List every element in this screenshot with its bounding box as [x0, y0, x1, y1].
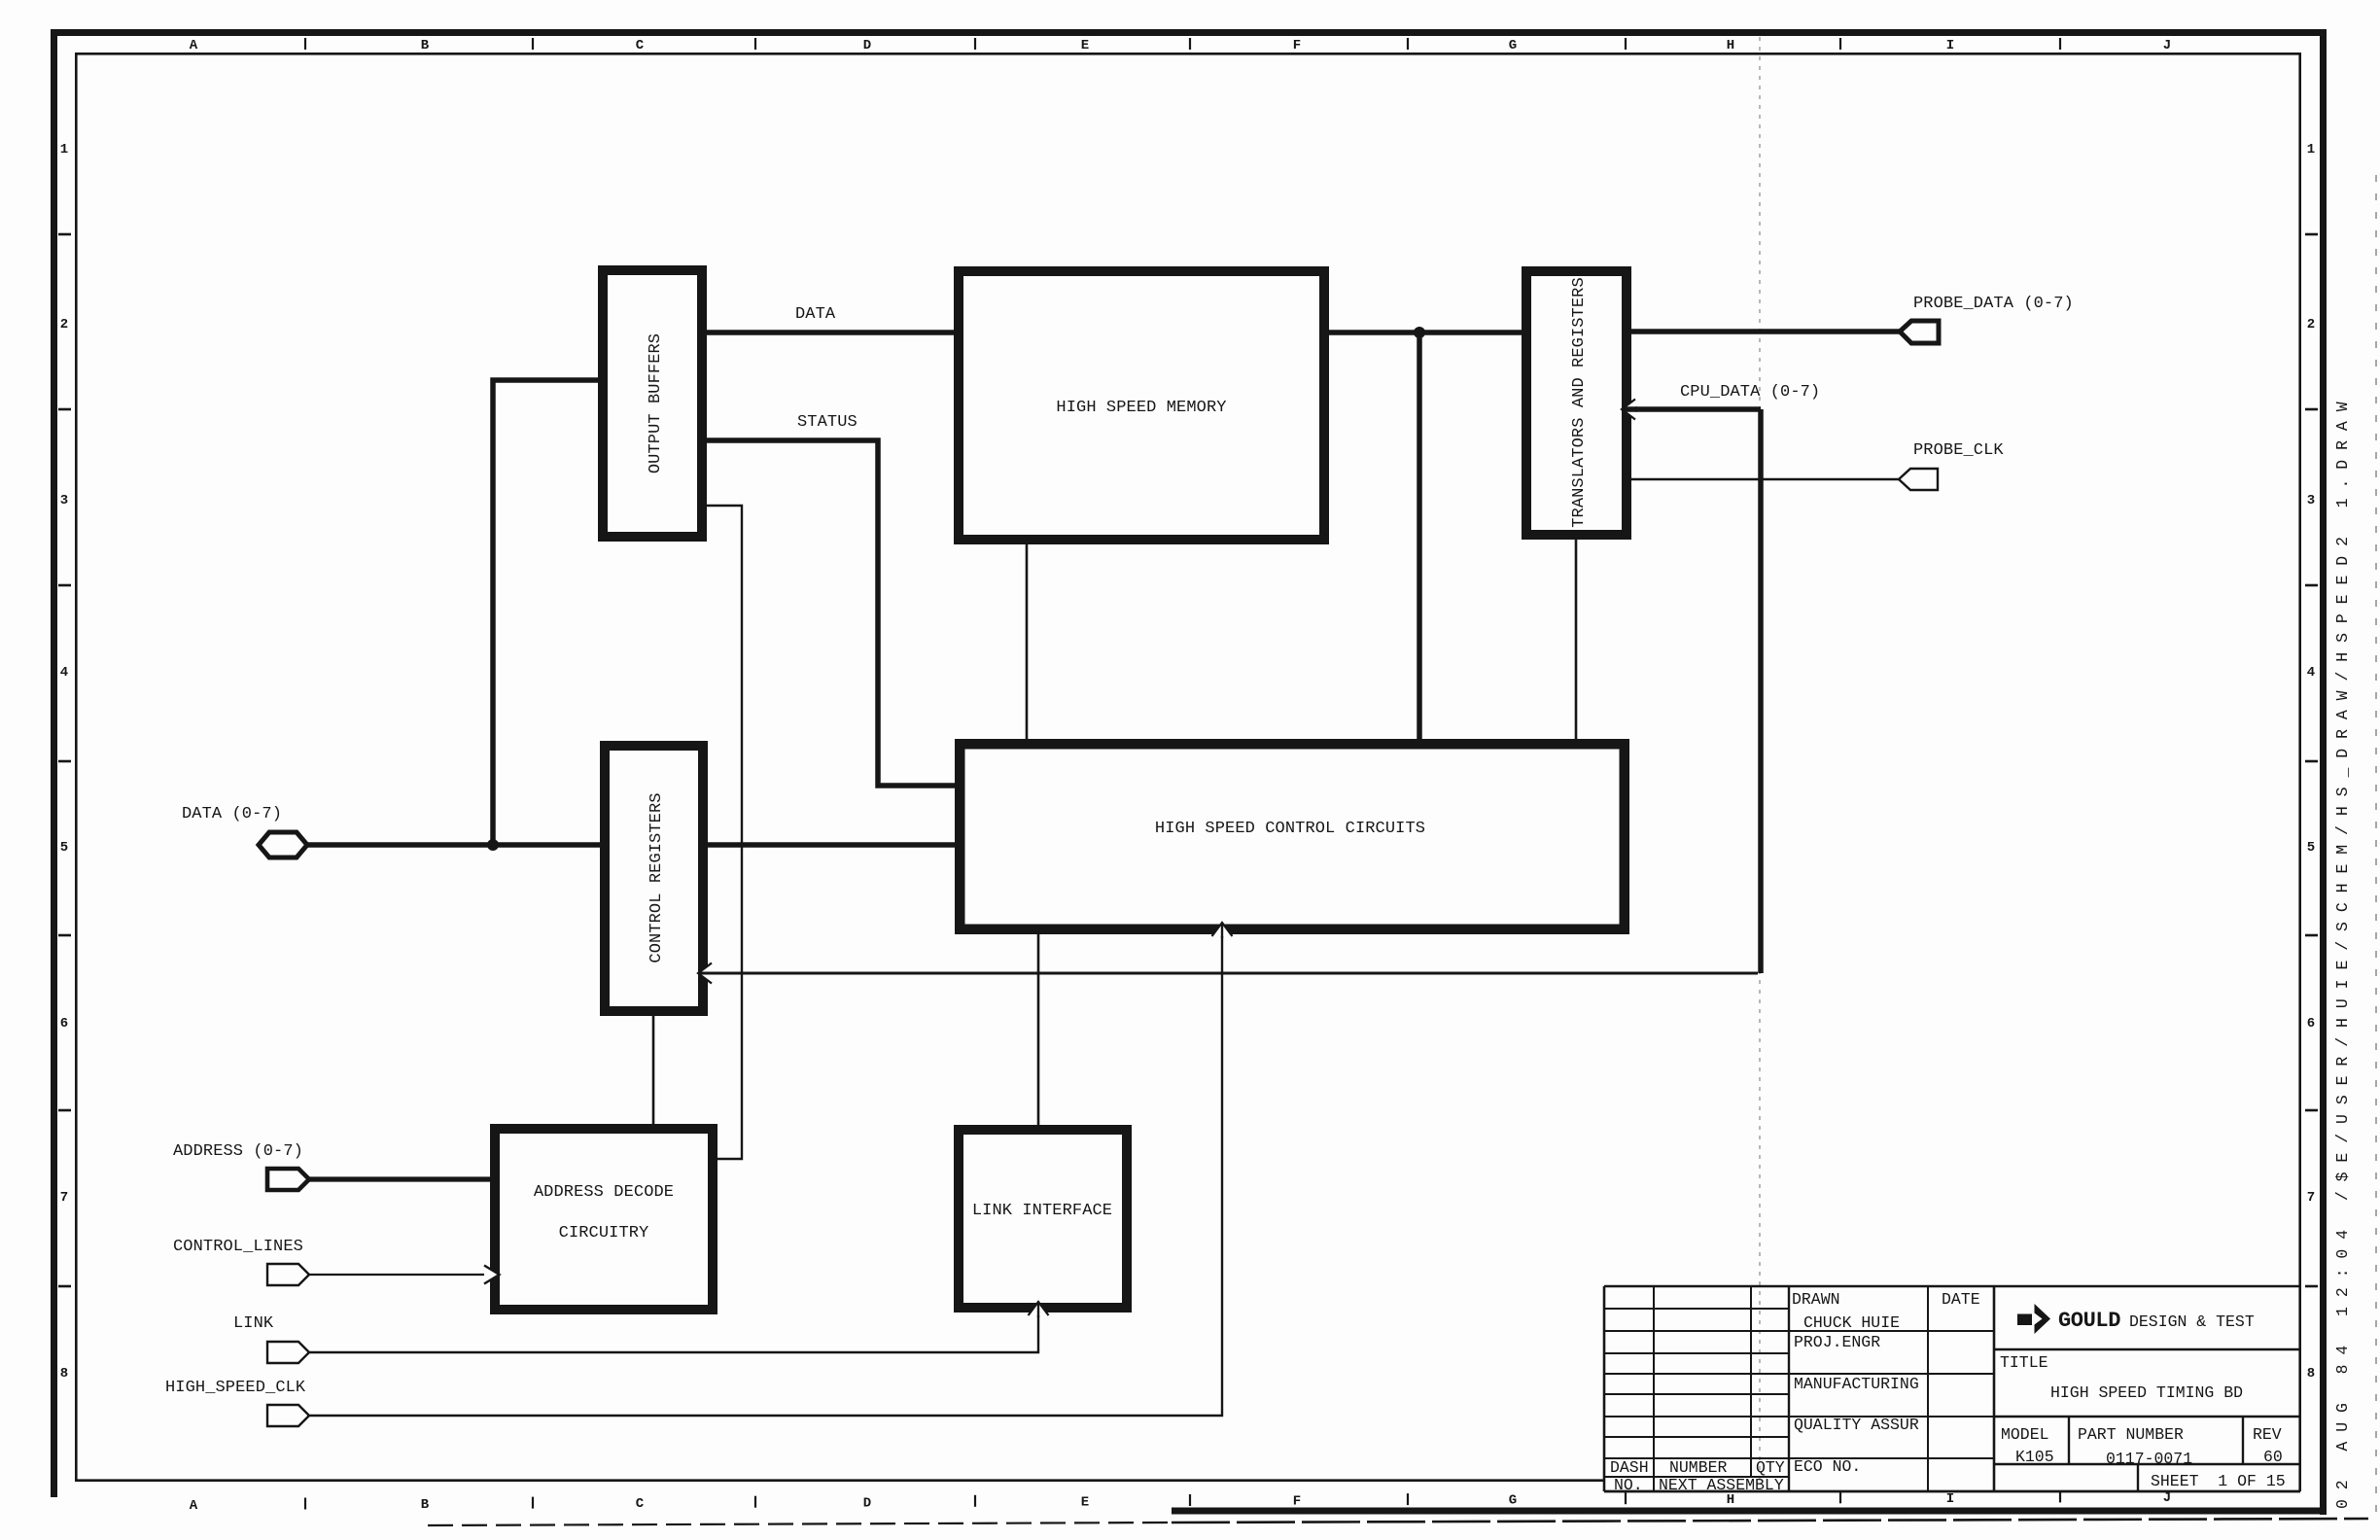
wire LINK: connector to LINK INTERFACE bottom [307, 1311, 1038, 1352]
svg-text:7: 7 [60, 1190, 68, 1206]
block HIGH SPEED MEMORY [959, 271, 1324, 540]
svg-text:C: C [636, 38, 645, 53]
svg-text:4: 4 [60, 665, 68, 681]
svg-text:H: H [1727, 38, 1734, 53]
block TRANSLATORS AND REGISTERS [1526, 271, 1627, 535]
svg-text:ECO NO.: ECO NO. [1794, 1457, 1861, 1476]
junction dot DATA / control-circuit drop [1414, 327, 1425, 338]
svg-text:C: C [636, 1496, 645, 1512]
svg-text:1: 1 [2307, 142, 2315, 157]
wire: HIGH SPEED MEMORY bottom to HIGH SPEED CONTROL CIRCUITS top [1026, 542, 1029, 742]
wire DATA: OUTPUT BUFFERS to HIGH SPEED MEMORY [706, 330, 956, 335]
svg-text:2: 2 [60, 317, 68, 332]
title block title text [2000, 1353, 2243, 1402]
bottom ragged scan line [428, 1519, 2368, 1525]
svg-text:J: J [2163, 38, 2171, 53]
block ADDRESS DECODE CIRCUITRY [495, 1129, 713, 1310]
svg-text:B: B [421, 38, 430, 53]
wire PROBE_DATA bus: TRANSLATORS to connector [1629, 329, 1902, 334]
svg-text:B: B [421, 1497, 430, 1513]
svg-text:PART NUMBER: PART NUMBER [2078, 1425, 2184, 1444]
svg-text:TITLE: TITLE [2000, 1353, 2048, 1372]
svg-text:5: 5 [2307, 840, 2315, 856]
right margin dashed edge line [2375, 175, 2377, 1517]
wire STATUS: OUTPUT BUFFERS to HIGH SPEED CONTROL CIRCUITS left side [706, 440, 957, 786]
column letters bottom band [190, 1490, 2171, 1514]
svg-text:HIGH_SPEED_CLK: HIGH_SPEED_CLK [165, 1379, 306, 1397]
svg-text:K105: K105 [2015, 1448, 2054, 1466]
svg-text:CPU_DATA (0-7): CPU_DATA (0-7) [1680, 383, 1820, 402]
arrowhead CONTROL_LINES at ADDRESS DECODE left edge [484, 1266, 500, 1284]
svg-text:8: 8 [2307, 1366, 2315, 1382]
svg-text:6: 6 [2307, 1016, 2315, 1032]
svg-text:H: H [1727, 1492, 1734, 1508]
wire drop from DATA junction down to HIGH SPEED CONTROL CIRCUITS top [1417, 332, 1422, 741]
column letters top band [190, 38, 2171, 53]
svg-text:8: 8 [60, 1366, 68, 1382]
svg-text:NUMBER: NUMBER [1669, 1458, 1728, 1477]
svg-text:DATE: DATE [1942, 1290, 1980, 1309]
connector PROBE_CLK [1899, 469, 1938, 490]
row numbers right band [2305, 142, 2318, 1382]
svg-text:PROBE_CLK: PROBE_CLK [1913, 441, 2004, 460]
svg-text:DESIGN & TEST: DESIGN & TEST [2129, 1312, 2255, 1331]
svg-text:E: E [1081, 38, 1089, 53]
svg-text:0117-0071: 0117-0071 [2106, 1450, 2192, 1468]
svg-text:LINK INTERFACE: LINK INTERFACE [972, 1202, 1112, 1220]
wire CONTROL_LINES: connector to ADDRESS DECODE [307, 1274, 488, 1276]
svg-text:F: F [1293, 38, 1301, 53]
svg-text:7: 7 [2307, 1190, 2315, 1206]
svg-text:NO.: NO. [1614, 1476, 1643, 1494]
svg-text:QTY: QTY [1756, 1458, 1785, 1477]
block CONTROL REGISTERS [605, 746, 703, 1011]
block OUTPUT BUFFERS [603, 270, 702, 537]
wire loop from DATA bus up to OUTPUT BUFFERS left side [493, 380, 599, 845]
svg-text:REV: REV [2253, 1425, 2282, 1444]
svg-text:LINK: LINK [233, 1314, 274, 1333]
svg-text:D: D [863, 38, 871, 53]
svg-text:QUALITY ASSUR: QUALITY ASSUR [1794, 1416, 1919, 1434]
svg-text:PROBE_DATA (0-7): PROBE_DATA (0-7) [1913, 295, 2074, 313]
svg-text:ADDRESS (0-7): ADDRESS (0-7) [173, 1142, 303, 1161]
connector ADDRESS (0-7) [267, 1169, 309, 1190]
title block model / part / rev [2001, 1425, 2283, 1468]
wire thin: OUTPUT BUFFERS lower right down to ADDRESS DECODE right side [706, 506, 742, 1159]
svg-text:I: I [1946, 1491, 1954, 1507]
svg-text:4: 4 [2307, 665, 2315, 681]
svg-text:GOULD: GOULD [2058, 1309, 2120, 1333]
svg-text:TRANSLATORS AND REGISTERS: TRANSLATORS AND REGISTERS [1570, 277, 1589, 528]
svg-text:CHUCK HUIE: CHUCK HUIE [1803, 1313, 1900, 1332]
connector DATA (0-7) bidirectional hexagon [259, 832, 307, 857]
row numbers left band [58, 142, 71, 1382]
svg-text:3: 3 [2307, 493, 2315, 508]
svg-text:SHEET 1 OF 15: SHEET 1 OF 15 [2151, 1472, 2286, 1490]
svg-text:DRAWN: DRAWN [1792, 1290, 1840, 1309]
svg-text:A: A [190, 1498, 198, 1514]
notch wedge CPU_DATA return at CONTROL REGISTERS right edge [698, 963, 714, 984]
svg-text:F: F [1293, 1494, 1301, 1510]
svg-text:I: I [1946, 38, 1954, 53]
connector LINK [267, 1342, 309, 1363]
svg-text:3: 3 [60, 493, 68, 508]
svg-text:G: G [1509, 38, 1517, 53]
svg-text:60: 60 [2263, 1448, 2283, 1466]
svg-text:MODEL: MODEL [2001, 1425, 2049, 1444]
title block dash/number row text [1610, 1458, 1785, 1494]
svg-text:E: E [1081, 1494, 1089, 1510]
svg-text:D: D [863, 1495, 871, 1511]
svg-text:G: G [1509, 1493, 1517, 1509]
connector PROBE_DATA (0-7) [1900, 321, 1939, 343]
notch wedge LINK at LINK INTERFACE bottom edge [1029, 1302, 1049, 1317]
svg-text:HIGH SPEED CONTROL CIRCUITS: HIGH SPEED CONTROL CIRCUITS [1155, 820, 1425, 838]
notch wedge CPU_DATA at TRANSLATORS right edge [1622, 400, 1637, 420]
svg-text:DASH: DASH [1610, 1458, 1649, 1477]
svg-text:1: 1 [60, 142, 68, 157]
GOULD logo mark [2017, 1304, 2050, 1334]
wire: TRANSLATORS bottom to HIGH SPEED CONTROL CIRCUITS top [1575, 538, 1578, 742]
block HIGH SPEED CONTROL CIRCUITS [960, 744, 1625, 929]
svg-text:6: 6 [60, 1016, 68, 1032]
svg-text:2: 2 [2307, 317, 2315, 332]
wire ADDRESS bus: connector to ADDRESS DECODE [307, 1176, 492, 1181]
vertical fold line (dashed) [1759, 37, 1761, 1480]
title block frame and grid [1604, 1286, 2300, 1491]
wire HIGH_SPEED_CLK: connector to HIGH SPEED CONTROL CIRCUITS bottom [307, 931, 1222, 1416]
wire: CONTROL REGISTERS bottom to ADDRESS DECODE top [652, 1014, 655, 1131]
title block approvals text [1792, 1290, 1980, 1476]
wire: HIGH SPEED CONTROL CIRCUITS bottom to LINK INTERFACE top [1037, 930, 1040, 1131]
wire CPU_DATA: TRANSLATORS right, down, back to CONTROL REGISTERS [703, 409, 1761, 973]
svg-text:STATUS: STATUS [797, 413, 857, 432]
wire DATA bus left: connector to CONTROL REGISTERS and on to HIGH SPEED CONTROL CIRCUITS [307, 842, 957, 848]
wire DATA: HIGH SPEED MEMORY to TRANSLATORS AND REGISTERS [1327, 330, 1522, 335]
svg-text:5: 5 [60, 840, 68, 856]
svg-text:MANUFACTURING: MANUFACTURING [1794, 1375, 1919, 1393]
junction dot DATA bus / output-buffer loop [487, 839, 499, 851]
svg-text:02 AUG 84 12:04 /$E/USER/HUIE/: 02 AUG 84 12:04 /$E/USER/HUIE/SCHEM/HS_D… [2333, 393, 2352, 1510]
svg-text:ADDRESS DECODE: ADDRESS DECODE [534, 1183, 674, 1202]
svg-text:A: A [190, 38, 198, 53]
svg-text:HIGH SPEED MEMORY: HIGH SPEED MEMORY [1056, 399, 1226, 417]
svg-text:HIGH SPEED TIMING BD: HIGH SPEED TIMING BD [2050, 1383, 2243, 1402]
wire PROBE_CLK: TRANSLATORS right to connector [1629, 478, 1901, 480]
svg-text:NEXT ASSEMBLY: NEXT ASSEMBLY [1659, 1476, 1784, 1494]
svg-text:DATA (0-7): DATA (0-7) [182, 805, 282, 823]
svg-text:CONTROL_LINES: CONTROL_LINES [173, 1238, 303, 1256]
svg-text:OUTPUT BUFFERS: OUTPUT BUFFERS [647, 333, 665, 473]
svg-text:DATA: DATA [795, 305, 836, 324]
block LINK INTERFACE [959, 1130, 1127, 1308]
notch wedge HIGH_SPEED_CLK at CONTROL CIRCUITS bottom edge [1212, 923, 1233, 938]
svg-text:CIRCUITRY: CIRCUITRY [559, 1224, 649, 1242]
connector CONTROL_LINES [267, 1264, 309, 1285]
connector HIGH_SPEED_CLK [267, 1405, 309, 1426]
svg-text:CONTROL REGISTERS: CONTROL REGISTERS [647, 792, 666, 962]
svg-text:PROJ.ENGR: PROJ.ENGR [1794, 1333, 1880, 1351]
